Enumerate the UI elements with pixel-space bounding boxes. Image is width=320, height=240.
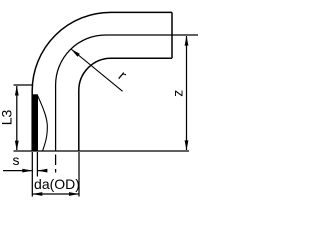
r arrowhead bbox=[71, 49, 80, 57]
L3 dimension line bbox=[16, 86, 18, 150]
s outer extension line (also da extension) bbox=[31, 152, 33, 197]
L3 arrow up bbox=[15, 86, 19, 96]
da dimension line bbox=[32, 193, 79, 195]
elbow inner contour (bottom wall + inner arc + right wall of vertical leg) bbox=[79, 58, 172, 151]
wall cross-section (solid black) bbox=[32, 94, 38, 150]
svg-text:da(OD): da(OD) bbox=[34, 176, 80, 192]
centerline dash below end bbox=[55, 155, 57, 166]
s arrow left-pointing bbox=[37, 169, 47, 173]
svg-text:s: s bbox=[13, 152, 20, 168]
elbow outer contour (left wall + outer arc + top wall) bbox=[32, 12, 172, 151]
bottom end face line with extensions bbox=[14, 150, 190, 152]
svg-text:z: z bbox=[169, 90, 185, 97]
da arrow left-pointing bbox=[32, 192, 42, 196]
z arrow down bbox=[185, 140, 189, 150]
z arrow up bbox=[185, 36, 189, 46]
s arrow right-pointing bbox=[22, 169, 32, 173]
r dimension line bbox=[71, 49, 123, 91]
da arrow right-pointing bbox=[69, 192, 79, 196]
L3 extension line bbox=[14, 84, 34, 86]
svg-text:L3: L3 bbox=[0, 110, 14, 126]
da right extension line bbox=[78, 152, 80, 197]
z dimension line bbox=[186, 36, 188, 150]
s inner extension line bbox=[36, 152, 38, 177]
L3 arrow down bbox=[15, 141, 19, 151]
centerline (vertical leg + bend arc + horizontal leg) bbox=[56, 35, 198, 152]
elbow right end face bbox=[171, 12, 173, 58]
s dimension line left bbox=[3, 170, 32, 172]
centerline dot below end bbox=[55, 169, 57, 173]
bore silhouette curve bbox=[37, 95, 47, 151]
s dimension line right bbox=[38, 170, 47, 172]
